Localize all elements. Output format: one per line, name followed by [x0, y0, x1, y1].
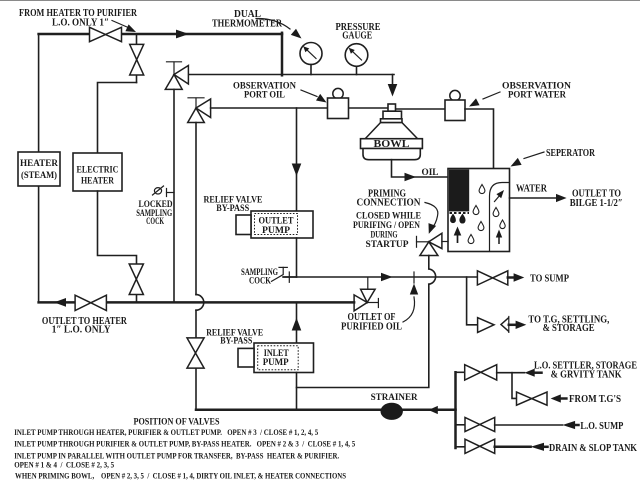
- pipe water outlet with arrow: [510, 194, 567, 202]
- svg-text:INLET PUMP IN PARALLEL WITH OU: INLET PUMP IN PARALLEL WITH OUTLET PUMP …: [14, 451, 339, 460]
- svg-text:PUMP: PUMP: [262, 226, 290, 236]
- pressure gauge label: [336, 22, 381, 42]
- svg-text:INLET PUMP THROUGH HEATER, PUR: INLET PUMP THROUGH HEATER, PURIFIER & OU…: [14, 428, 318, 437]
- heater steam box: [18, 152, 60, 186]
- pipe outlet pump suction with down arrow: [292, 108, 302, 211]
- pipe bottom return line: [39, 301, 355, 304]
- svg-text:BILGE 1-1/2″: BILGE 1-1/2″: [570, 198, 623, 209]
- pipe bowl inlet drop with down arrow: [388, 75, 398, 97]
- valve lo-sump (gate): [456, 417, 495, 431]
- svg-text:STARTUP: STARTUP: [366, 240, 409, 250]
- outlet of purified oil label with curved arrow: [341, 284, 418, 333]
- flow arrow to tg settling: [509, 321, 527, 329]
- relief valve by-pass label (inlet pump): [206, 328, 263, 346]
- flow arrow to sump: [508, 273, 525, 281]
- pipe left main riser: [38, 34, 40, 302]
- separator weir tube: [490, 183, 510, 252]
- pipe and arrow from lo sump: [495, 421, 579, 429]
- separator water droplets: [468, 185, 505, 244]
- svg-text:PURIFIED OIL: PURIFIED OIL: [341, 321, 402, 332]
- pipe and arrow from lo settler: [497, 369, 542, 377]
- pipe bowl outlet to separator with arrow: [392, 160, 449, 182]
- pipe priming valve to separator: [442, 241, 448, 243]
- valve to-tg-settling (check): [478, 317, 509, 333]
- valve 5 relief by-pass (vertical): [187, 338, 204, 368]
- svg-text:CONNECTION: CONNECTION: [357, 197, 422, 208]
- priming connection valve (3-way): [417, 233, 442, 255]
- inlet pump: [238, 343, 314, 373]
- lo settler storage label: [534, 360, 637, 380]
- svg-text:1″ L.O. ONLY: 1″ L.O. ONLY: [52, 325, 112, 336]
- svg-text:POSITION OF VALVES: POSITION OF VALVES: [134, 416, 220, 427]
- outlet to heater labels: [42, 316, 128, 336]
- svg-text:WHEN PRIMING BOWL, OPEN # 2: WHEN PRIMING BOWL, OPEN # 2, 3, 5 / CLOS…: [15, 472, 346, 481]
- pipe purifier inlet drop: [281, 33, 284, 76]
- svg-text:HEATER: HEATER: [20, 159, 58, 169]
- strainer: [371, 393, 418, 420]
- pipe tank manifold: [454, 372, 457, 448]
- svg-text:SEPERATOR: SEPERATOR: [546, 148, 596, 159]
- svg-text:ELECTRIC: ELECTRIC: [77, 166, 119, 176]
- from heater to purifier label with arrow: [19, 8, 138, 32]
- flow arrow from tgs: [551, 394, 567, 402]
- pipe and arrow from drain: [495, 443, 548, 451]
- svg-text:PUMP: PUMP: [263, 358, 289, 368]
- relief angle valve (outlet pump by-pass): [165, 62, 188, 90]
- svg-text:(STEAM): (STEAM): [21, 170, 57, 181]
- pipe priming drop with crossover hop: [297, 256, 436, 388]
- separator oil chamber (black): [449, 169, 469, 243]
- sampling cock on discharge: [272, 267, 297, 282]
- valve to-sump (gate): [477, 271, 507, 285]
- svg-text:PORT OIL: PORT OIL: [244, 91, 285, 101]
- bowl assembly: [361, 104, 423, 160]
- valve position list: [14, 428, 355, 481]
- tick on purified line: [413, 272, 415, 283]
- svg-text:GAUGE: GAUGE: [342, 31, 372, 42]
- pipe branch to settling outlets: [467, 277, 478, 325]
- priming connection labels with curved arrow: [353, 189, 438, 250]
- svg-text:HEATER: HEATER: [81, 176, 114, 186]
- pipe electric heater feed: [98, 83, 137, 154]
- pipe inlet pump suction: [296, 373, 298, 410]
- svg-text:OIL: OIL: [422, 168, 439, 178]
- pipe purifier inlet header: [188, 74, 394, 76]
- pipe outlet pump discharge: [296, 238, 298, 277]
- svg-text:BOWL: BOWL: [374, 139, 410, 150]
- to tg settling label: [528, 314, 609, 334]
- pipe relief by-pass drop: [173, 89, 175, 302]
- relief valve by-pass label (outlet pump): [204, 195, 263, 214]
- pipe strainer suction line: [196, 408, 456, 411]
- separator tank: [448, 169, 510, 252]
- svg-text:WATER: WATER: [516, 183, 548, 194]
- svg-text:PORT WATER: PORT WATER: [508, 91, 566, 101]
- valve 1 from-heater (gate): [90, 27, 122, 41]
- svg-text:FROM T.G'S: FROM T.G'S: [569, 394, 621, 405]
- svg-text:BY-PASS: BY-PASS: [216, 204, 249, 214]
- outlet to bilge label: [570, 188, 623, 208]
- svg-text:PURIFING / OPEN: PURIFING / OPEN: [353, 221, 420, 231]
- svg-text:BY-PASS: BY-PASS: [220, 337, 252, 347]
- observation port water label with arrow: [469, 82, 571, 107]
- relief angle valve (inlet pump by-pass): [188, 98, 211, 123]
- outlet pump: [236, 211, 313, 238]
- pipe electric heater return: [98, 191, 137, 264]
- pipe observation port water to separator: [465, 109, 494, 169]
- svg-text:L.O. ONLY 1″: L.O. ONLY 1″: [52, 17, 109, 28]
- pipe inlet pump discharge riser with up arrow: [292, 302, 302, 343]
- dual thermometer label with curved arrow: [212, 9, 302, 39]
- flow arrow left outlet-to-heater: [54, 298, 66, 307]
- svg-text:OPEN # 1 & 4 / CLOSE # 2, 3,: OPEN # 1 & 4 / CLOSE # 2, 3, 5: [14, 461, 114, 470]
- thermometer gauge: [300, 43, 322, 75]
- pipe purified oil line: [284, 276, 477, 278]
- valve 3 electric-heater return (vertical): [129, 264, 143, 295]
- valve 2 electric-heater branch (vertical): [130, 34, 144, 83]
- svg-text:& GRVITY TANK: & GRVITY TANK: [551, 369, 622, 380]
- svg-text:TO SUMP: TO SUMP: [530, 274, 569, 285]
- valve 4 outlet-to-heater (gate): [75, 295, 106, 310]
- flow arrow right on purified line: [381, 273, 393, 282]
- svg-text:L.O. SUMP: L.O. SUMP: [580, 421, 623, 432]
- pipe branch from tgs: [512, 373, 517, 399]
- valve drain-slop (gate): [456, 439, 495, 453]
- observation port oil label with arrow: [233, 82, 327, 103]
- observation port water: [445, 90, 465, 120]
- electric heater box: [73, 153, 122, 191]
- pipe inlet by-pass drop with crossover hop: [196, 123, 204, 410]
- pressure gauge: [345, 44, 368, 75]
- svg-text:DRAIN & SLOP TANK: DRAIN & SLOP TANK: [549, 443, 637, 454]
- svg-text:& STORAGE: & STORAGE: [543, 323, 595, 334]
- pipe bowl top to observation port water: [396, 108, 445, 110]
- svg-text:STRAINER: STRAINER: [371, 393, 418, 403]
- svg-text:COCK: COCK: [146, 217, 164, 227]
- sampling cock label: [241, 268, 278, 286]
- valve from-tgs (gate): [517, 392, 548, 405]
- observation port oil: [328, 88, 349, 118]
- seperator label with arrow: [511, 148, 596, 167]
- pipe top header from heater to purifier: [39, 33, 282, 36]
- valve lo-settler (gate): [456, 365, 497, 380]
- svg-text:DURING: DURING: [371, 230, 398, 240]
- svg-text:COCK: COCK: [249, 276, 272, 286]
- flow arrow left on strainer line: [428, 406, 437, 414]
- svg-text:INLET PUMP THROUGH PURIFIER &: INLET PUMP THROUGH PURIFIER & OUTLET PUM…: [14, 439, 355, 448]
- outlet of purified oil valve (angle): [354, 278, 378, 311]
- flow arrow right on top header: [176, 30, 189, 39]
- locked sampling cock: [153, 186, 175, 197]
- pipe observation oil line: [211, 107, 388, 109]
- locked sampling cock label: [136, 200, 173, 227]
